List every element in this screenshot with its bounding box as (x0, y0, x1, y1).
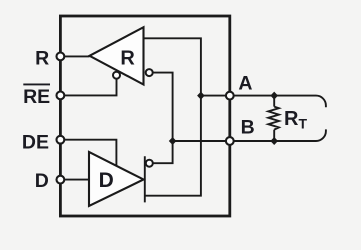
receiver inverting input bubble (146, 69, 153, 76)
IC box U1 (60, 16, 229, 216)
svg-text:A: A (238, 73, 252, 95)
svg-text:RE: RE (23, 86, 50, 108)
wire DE pin to driver enable (60, 140, 116, 168)
junction resistor bottom diamond (270, 137, 278, 145)
junction resistor top diamond (270, 92, 278, 100)
driver inverting output bubble (146, 160, 153, 167)
svg-text:R: R (35, 47, 49, 69)
svg-text:D: D (99, 169, 114, 192)
svg-text:B: B (241, 117, 255, 139)
wire D pin to driver base (60, 179, 89, 181)
wire node B horizontal to B pin (173, 140, 230, 142)
svg-text:D: D (35, 170, 49, 192)
pin R circle (57, 53, 65, 61)
driver U1B triangle (89, 152, 144, 206)
wire node A horizontal to A pin (201, 95, 230, 97)
wire R pin to receiver apex (60, 55, 89, 57)
RE overline (23, 83, 50, 85)
pin A circle (226, 92, 234, 100)
pin B circle (226, 137, 234, 145)
pin D circle (57, 176, 65, 184)
wire net B vertical (receiver inverting input to driver inverting output) (153, 73, 173, 164)
resistor RT zigzag (268, 107, 279, 130)
pin RE circle (57, 92, 65, 100)
wire B pin to cable (230, 129, 326, 141)
svg-text:R: R (120, 47, 135, 69)
wire RE pin to enable bubble (60, 79, 116, 95)
pin DE circle (57, 136, 65, 144)
receiver U1A triangle (90, 27, 144, 84)
wire receiver noninverting input from node A (144, 38, 201, 95)
wire A pin to cable (230, 96, 326, 108)
receiver enable bubble (113, 72, 120, 79)
junction node A diamond (197, 92, 205, 100)
resistor RT leads (273, 96, 275, 141)
wire driver output to node A (145, 96, 201, 203)
junction node B diamond (169, 137, 177, 145)
svg-text:DE: DE (22, 132, 49, 154)
